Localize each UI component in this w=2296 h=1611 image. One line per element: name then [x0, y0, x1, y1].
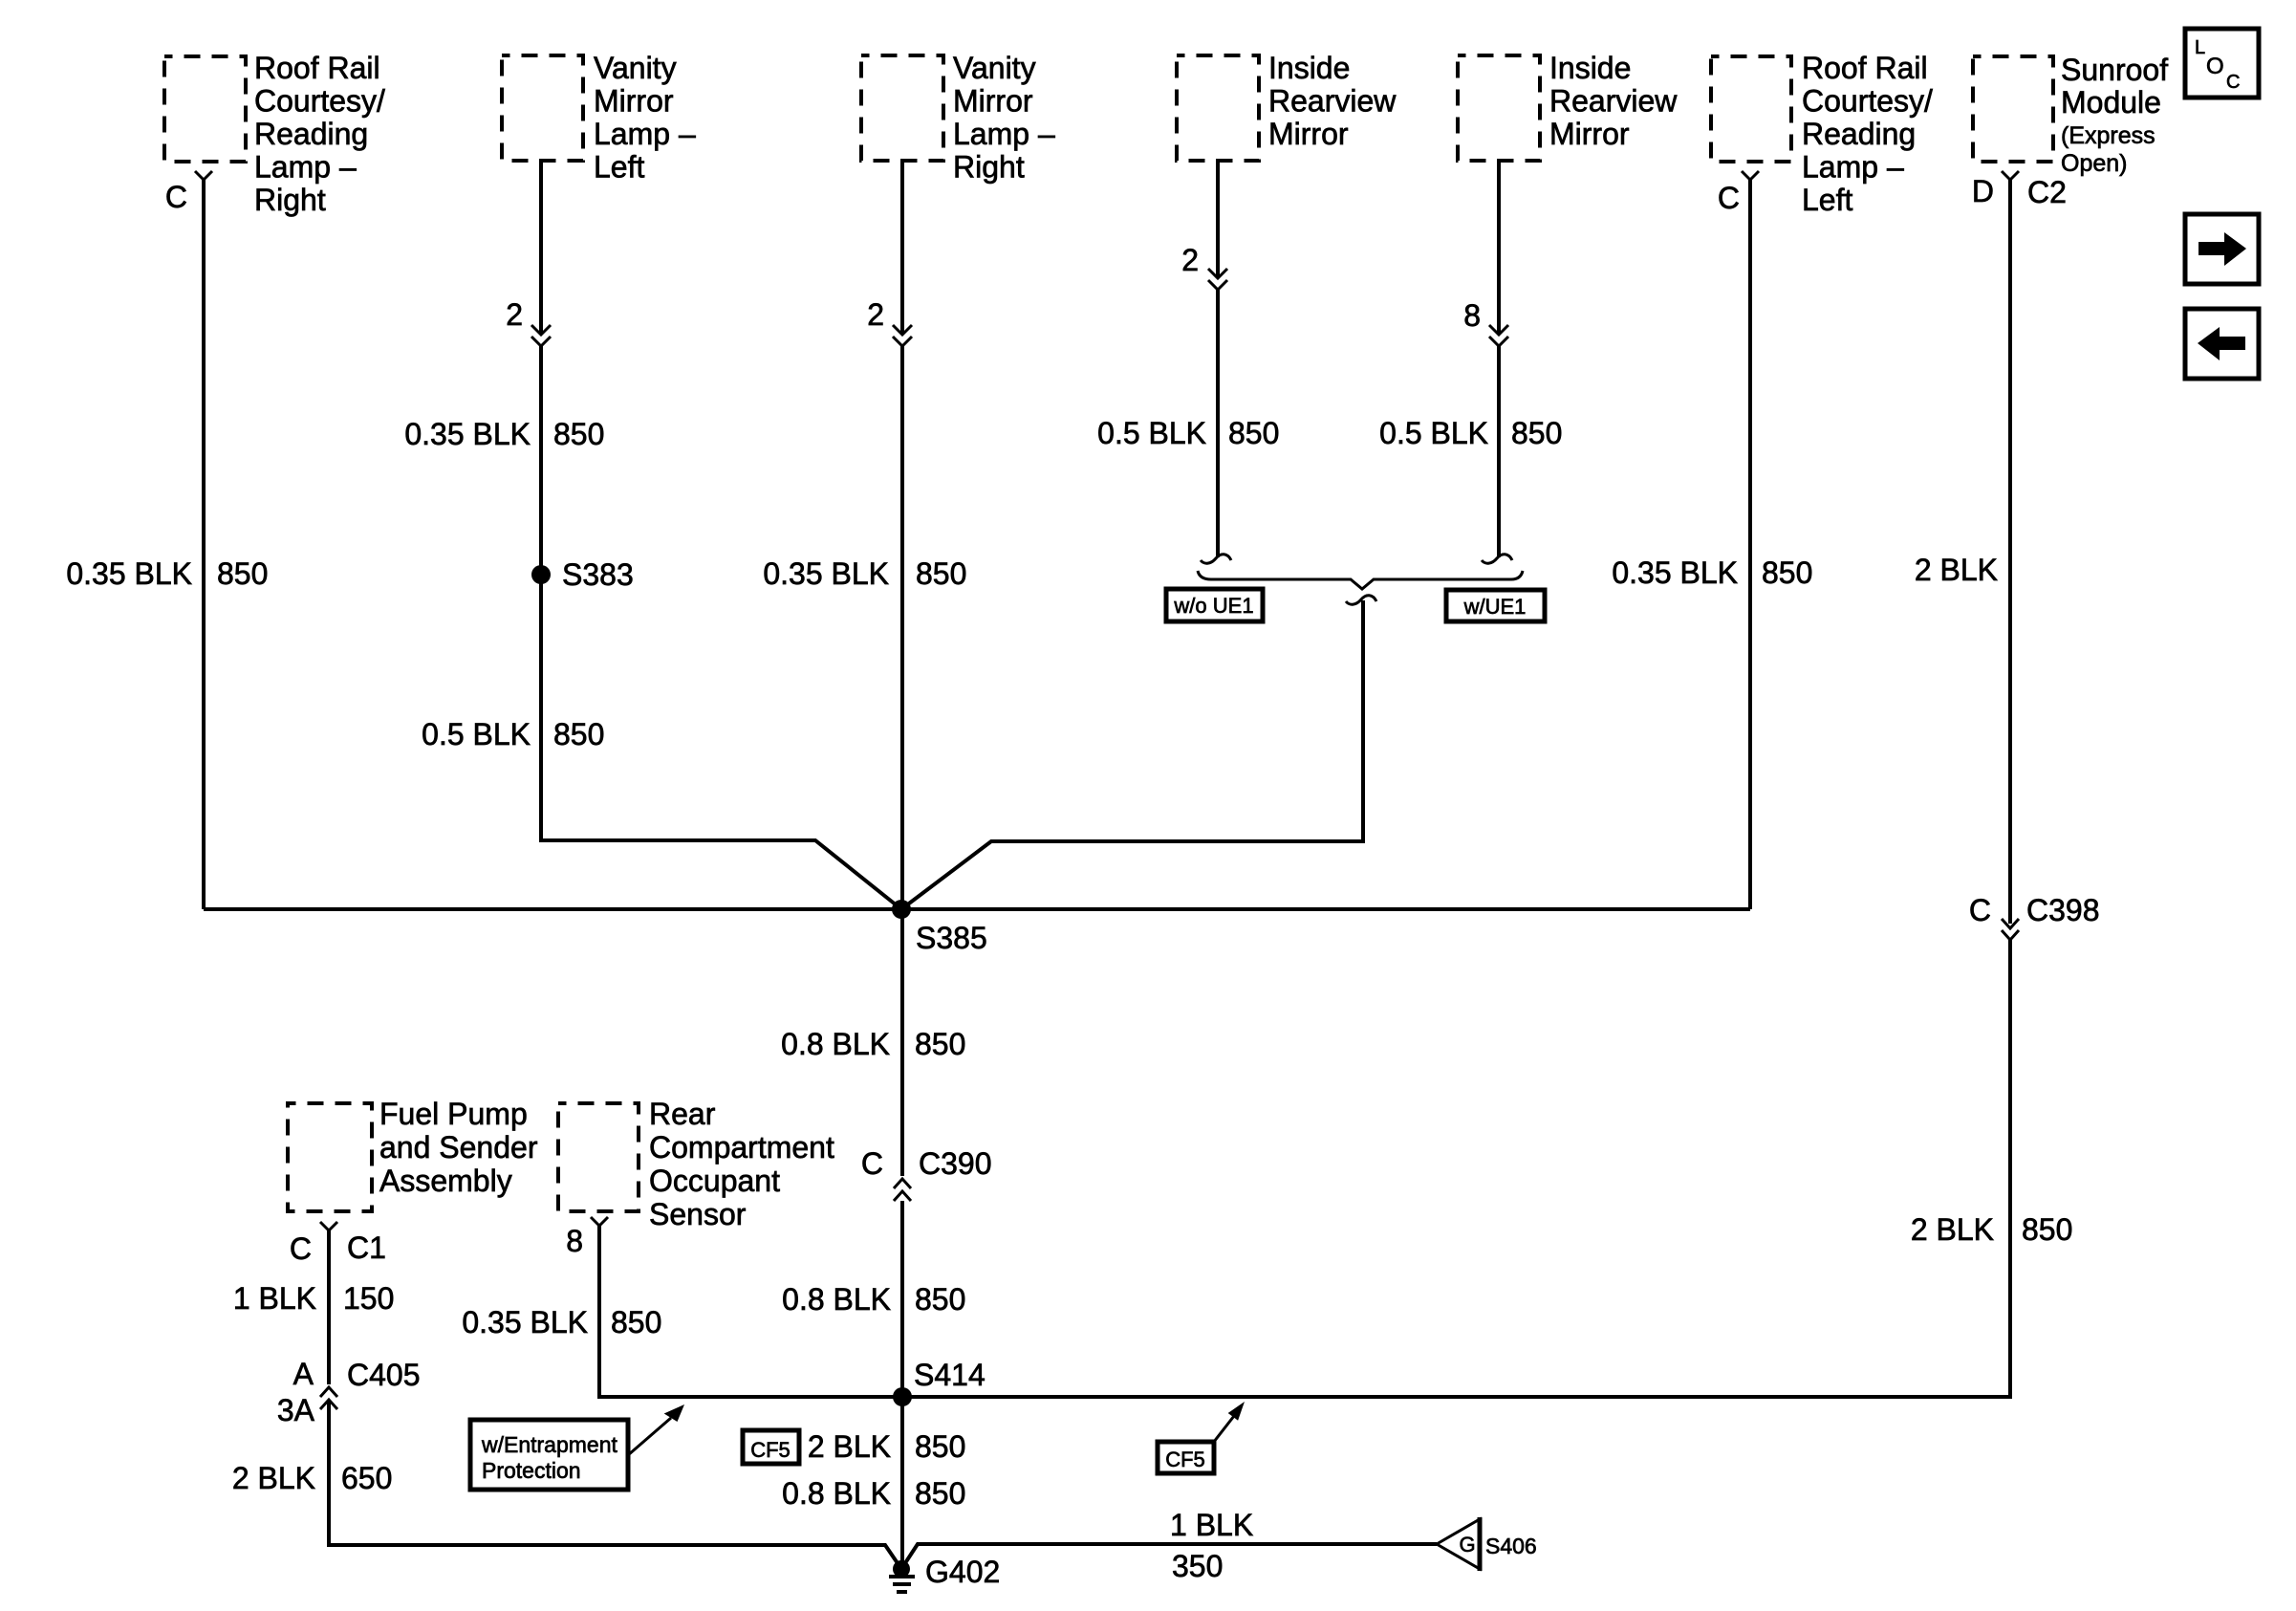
svg-text:O: O — [2206, 54, 2224, 79]
svg-text:L: L — [2195, 37, 2205, 58]
svg-text:Left: Left — [1802, 183, 1852, 217]
component box: Sunroof Module (Express Open) — [1973, 53, 2168, 177]
wire label 2 BLK 650 — [232, 1461, 393, 1495]
wire label 1 BLK / 350 — [1170, 1508, 1253, 1583]
svg-text:C: C — [1969, 893, 1991, 927]
svg-text:Occupant: Occupant — [649, 1164, 780, 1198]
wire label 0.35 BLK 850 (roof rail right) — [66, 556, 268, 591]
wire from roof rail lamp right down to S385 line — [202, 179, 206, 909]
svg-text:Assembly: Assembly — [379, 1164, 512, 1198]
svg-text:2: 2 — [1181, 243, 1199, 277]
wire sunroof module down to C398 — [2008, 179, 2012, 924]
connector Y at sunroof module, pins D / C2 — [1972, 171, 2067, 209]
option brace joining rearview mirror wires — [1198, 571, 1523, 604]
svg-text:Mirror: Mirror — [1549, 117, 1630, 151]
connector C405 (pin A, cavity 3A) with up chevrons — [277, 1357, 421, 1427]
legend left-arrow box — [2185, 309, 2259, 379]
wire label 0.35 BLK 850 (roof rail left) — [1612, 555, 1812, 590]
inline connector chevrons (vanity right) — [893, 325, 912, 346]
svg-text:Courtesy/: Courtesy/ — [1802, 84, 1933, 119]
svg-text:Inside: Inside — [1549, 51, 1631, 85]
svg-text:0.35 BLK: 0.35 BLK — [1612, 555, 1738, 590]
wire label 0.5 BLK 850 (rearview 2) — [1379, 416, 1562, 450]
component box: Vanity Mirror Lamp - Left — [502, 51, 696, 185]
svg-text:Mirror: Mirror — [953, 84, 1033, 119]
svg-text:w/UE1: w/UE1 — [1463, 595, 1527, 619]
wire vanity right: long vertical through S385 down to C390 — [900, 346, 904, 1176]
svg-text:Lamp –: Lamp – — [1802, 150, 1904, 185]
svg-text:2 BLK: 2 BLK — [1911, 1212, 1994, 1247]
svg-text:Inside: Inside — [1268, 51, 1350, 85]
connector Y at lamp left, pin C — [1718, 171, 1759, 215]
wire G402 to splice S406 — [901, 1544, 1437, 1569]
svg-text:350: 350 — [1172, 1549, 1223, 1583]
svg-text:CF5: CF5 — [750, 1438, 791, 1462]
svg-text:0.35 BLK: 0.35 BLK — [462, 1305, 588, 1339]
svg-text:C: C — [2226, 72, 2240, 93]
svg-text:0.35 BLK: 0.35 BLK — [763, 556, 889, 591]
svg-text:0.5 BLK: 0.5 BLK — [1379, 416, 1488, 450]
svg-text:0.8 BLK: 0.8 BLK — [781, 1027, 890, 1061]
wire from brace stem down and left to S385 — [901, 600, 1363, 909]
svg-text:Roof Rail: Roof Rail — [1802, 51, 1928, 85]
wire label 2 BLK 850 (sunroof lower) — [1911, 1212, 2073, 1247]
wire rearview 1 lower with break curl — [1216, 290, 1220, 557]
svg-text:Lamp –: Lamp – — [953, 117, 1055, 151]
inline connector chevrons (rearview 2) — [1489, 325, 1508, 346]
svg-text:w/o UE1: w/o UE1 — [1173, 594, 1253, 618]
component box: Fuel Pump and Sender Assembly — [288, 1097, 538, 1211]
svg-text:8: 8 — [1463, 298, 1481, 333]
svg-text:Fuel Pump: Fuel Pump — [379, 1097, 528, 1131]
option tag box: w/o UE1 — [1166, 589, 1263, 621]
svg-text:Lamp –: Lamp – — [594, 117, 696, 151]
wire label 0.35 BLK 850 (occupant sensor) — [462, 1305, 661, 1339]
component box: Rear Compartment Occupant Sensor — [558, 1097, 834, 1231]
connector C398 (pin C) with chevrons — [1969, 893, 2100, 940]
svg-text:Courtesy/: Courtesy/ — [254, 84, 385, 119]
svg-text:1 BLK: 1 BLK — [1170, 1508, 1253, 1542]
break curl (rearview 2) — [1482, 555, 1512, 563]
svg-text:1 BLK: 1 BLK — [233, 1281, 316, 1316]
svg-text:Sensor: Sensor — [649, 1197, 747, 1231]
svg-text:850: 850 — [915, 1027, 965, 1061]
wire label 0.8 BLK 850 (above G402) — [782, 1476, 965, 1511]
svg-text:850: 850 — [553, 417, 604, 451]
svg-text:Right: Right — [953, 150, 1025, 185]
splice S414 junction — [893, 1358, 986, 1406]
wire fuel pump below C405 down then right to G402 — [329, 1400, 899, 1566]
wire sunroof below C398 down then left to S414 — [902, 940, 2010, 1397]
svg-text:C: C — [861, 1146, 883, 1181]
svg-text:C390: C390 — [919, 1146, 992, 1181]
wire label 0.5 BLK 850 (below S383) — [422, 717, 604, 751]
svg-text:Compartment: Compartment — [649, 1130, 834, 1165]
option tag CF5 (left) with wire labels 2 BLK 850 — [743, 1429, 965, 1464]
svg-text:Reading: Reading — [1802, 117, 1916, 151]
svg-text:C: C — [165, 180, 187, 214]
option tag box: w/UE1 — [1446, 590, 1545, 621]
svg-text:A: A — [293, 1357, 314, 1391]
svg-text:CF5: CF5 — [1165, 1448, 1205, 1471]
svg-text:0.35 BLK: 0.35 BLK — [404, 417, 531, 451]
splice S385 junction — [204, 900, 1750, 955]
svg-text:S406: S406 — [1485, 1534, 1537, 1558]
svg-text:850: 850 — [2022, 1212, 2072, 1247]
wire label 1 BLK 150 — [233, 1281, 395, 1316]
splice symbol S406 (G triangle) — [1437, 1517, 1537, 1571]
svg-text:Lamp –: Lamp – — [254, 150, 357, 185]
svg-text:S385: S385 — [916, 921, 987, 955]
svg-text:850: 850 — [915, 1282, 965, 1317]
option tag CF5 (right) with arrow to S414 wire — [1158, 1402, 1245, 1473]
svg-text:0.8 BLK: 0.8 BLK — [782, 1476, 891, 1511]
svg-text:850: 850 — [916, 556, 966, 591]
wire vanity left lower segment to S385 — [541, 346, 901, 909]
svg-text:0.5 BLK: 0.5 BLK — [1097, 416, 1206, 450]
svg-text:2: 2 — [867, 297, 884, 332]
svg-text:C1: C1 — [347, 1230, 386, 1265]
svg-text:G402: G402 — [925, 1555, 1000, 1589]
svg-text:Mirror: Mirror — [594, 84, 674, 119]
svg-text:Rear: Rear — [649, 1097, 716, 1131]
svg-text:S414: S414 — [914, 1358, 986, 1392]
component box: Roof Rail Courtesy/Reading Lamp - Left — [1711, 51, 1933, 217]
svg-text:Left: Left — [594, 150, 644, 185]
inline connector chevrons (vanity left) — [531, 325, 551, 346]
svg-text:850: 850 — [915, 1429, 965, 1464]
wire fuel pump down to C405 — [327, 1230, 331, 1384]
svg-text:C398: C398 — [2026, 893, 2100, 927]
svg-text:Roof Rail: Roof Rail — [254, 51, 380, 85]
svg-text:3A: 3A — [277, 1393, 315, 1427]
svg-text:850: 850 — [1511, 416, 1562, 450]
svg-text:Protection: Protection — [482, 1458, 581, 1483]
wire label 0.8 BLK 850 (above C390) — [781, 1027, 965, 1061]
svg-text:850: 850 — [611, 1305, 661, 1339]
svg-text:0.8 BLK: 0.8 BLK — [782, 1282, 891, 1317]
connector Y at lamp right, pin C — [165, 171, 212, 214]
wire from roof rail lamp left down to S385 line — [1748, 179, 1752, 909]
wire label 0.5 BLK 850 (rearview 1) — [1097, 416, 1279, 450]
svg-text:Open): Open) — [2061, 150, 2127, 177]
svg-text:8: 8 — [566, 1224, 583, 1258]
svg-text:D: D — [1972, 174, 1994, 208]
svg-text:Sunroof: Sunroof — [2061, 53, 2168, 87]
inline connector chevrons (rearview 1) — [1208, 269, 1227, 290]
svg-text:850: 850 — [915, 1476, 965, 1511]
ground G402 with dot and ground symbol — [889, 1555, 1000, 1592]
svg-text:2: 2 — [506, 297, 523, 332]
svg-text:w/Entrapment: w/Entrapment — [481, 1432, 618, 1457]
svg-text:850: 850 — [1762, 555, 1812, 590]
wire label 0.35 BLK 850 (right of S383 level) — [763, 556, 966, 591]
component box: Vanity Mirror Lamp - Right — [861, 51, 1055, 185]
component box: Inside Rearview Mirror (w/UE1) — [1458, 51, 1678, 161]
svg-text:Vanity: Vanity — [594, 51, 677, 85]
svg-text:650: 650 — [341, 1461, 392, 1495]
svg-text:0.5 BLK: 0.5 BLK — [422, 717, 531, 751]
legend right-arrow box — [2185, 214, 2259, 284]
svg-text:Rearview: Rearview — [1268, 84, 1397, 119]
svg-text:2 BLK: 2 BLK — [808, 1429, 891, 1464]
svg-text:Reading: Reading — [254, 117, 368, 151]
svg-text:0.35 BLK: 0.35 BLK — [66, 556, 192, 591]
svg-text:(Express: (Express — [2061, 122, 2155, 149]
svg-text:C2: C2 — [2027, 175, 2067, 209]
svg-text:G: G — [1459, 1533, 1475, 1557]
svg-text:2 BLK: 2 BLK — [1915, 553, 1998, 587]
splice S383 — [531, 557, 634, 592]
svg-text:Module: Module — [2061, 85, 2161, 120]
callout box: w/Entrapment Protection with arrow — [470, 1404, 684, 1490]
wire label 0.35 BLK 850 (vanity left top) — [404, 417, 604, 451]
wire label 0.8 BLK 850 (above S414) — [782, 1282, 965, 1317]
wire vanity-right ground branch below C390 to G402 — [900, 1201, 904, 1569]
svg-text:C: C — [290, 1231, 312, 1266]
svg-text:and Sender: and Sender — [379, 1130, 538, 1165]
svg-text:Rearview: Rearview — [1549, 84, 1678, 119]
svg-text:850: 850 — [1228, 416, 1279, 450]
wire occupant sensor down then right to S414 — [599, 1226, 902, 1397]
component box: Roof Rail Courtesy/Reading Lamp - Right — [164, 51, 385, 217]
svg-text:C405: C405 — [347, 1358, 421, 1392]
svg-text:2 BLK: 2 BLK — [232, 1461, 315, 1495]
svg-text:Vanity: Vanity — [953, 51, 1036, 85]
svg-text:C: C — [1718, 181, 1740, 215]
component box: Inside Rearview Mirror (w/o UE1) — [1177, 51, 1397, 161]
break curl (rearview 1) — [1201, 555, 1231, 563]
wire rearview 2 upper — [1497, 159, 1501, 335]
svg-text:850: 850 — [553, 717, 604, 751]
svg-text:150: 150 — [343, 1281, 394, 1316]
svg-text:Right: Right — [254, 183, 326, 217]
svg-text:850: 850 — [217, 556, 268, 591]
connector Y at occupant sensor, pin 8 — [566, 1217, 608, 1258]
wire rearview 2 lower with break curl — [1497, 346, 1501, 557]
LOC legend box — [2185, 29, 2259, 98]
connector Y at fuel pump, pins C / C1 — [290, 1222, 386, 1266]
wire rearview 1 upper — [1216, 159, 1220, 278]
wire vanity left upper segment — [539, 159, 543, 335]
svg-text:S383: S383 — [562, 557, 634, 592]
connector C390 (pin C) with up chevrons — [861, 1146, 992, 1201]
svg-text:Mirror: Mirror — [1268, 117, 1349, 151]
wire vanity right upper segment — [900, 159, 904, 335]
